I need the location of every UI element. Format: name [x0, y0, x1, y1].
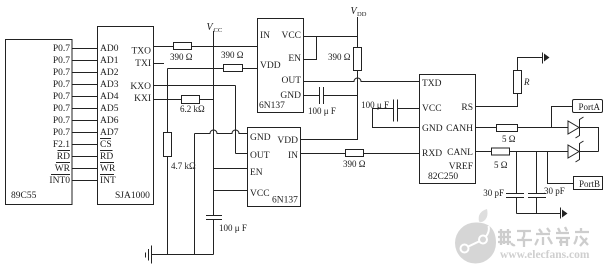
- wire CANH to R8: [476, 127, 497, 129]
- svg-text:AD6: AD6: [100, 116, 119, 126]
- svg-text:VDD: VDD: [260, 61, 281, 71]
- svg-text:30 pF: 30 pF: [483, 188, 504, 198]
- svg-text:P0.7: P0.7: [53, 44, 70, 54]
- wire TXO to R1: [154, 46, 174, 48]
- ground line right: [517, 213, 561, 215]
- svg-text:30 pF: 30 pF: [544, 186, 565, 196]
- watermark logo: [455, 209, 496, 263]
- svg-text:WR: WR: [55, 164, 71, 174]
- svg-text:5 Ω: 5 Ω: [502, 134, 516, 144]
- svg-text:VCC: VCC: [422, 104, 442, 114]
- node Vcc to R2 horizontal: [168, 68, 224, 70]
- svg-text:100 μ F: 100 μ F: [308, 106, 336, 116]
- wire R2 to VDD of upper 6N137: [243, 68, 258, 70]
- svg-text:RXD: RXD: [422, 149, 442, 159]
- svg-text:AD4: AD4: [100, 92, 119, 102]
- wire R8 to zener D1: [518, 127, 569, 129]
- SJA1000 right pin labels TXO TXI KXO KXI: [130, 47, 151, 105]
- svg-text:SJA1000: SJA1000: [115, 191, 150, 201]
- wire R3 to Vcc rail: [200, 99, 214, 101]
- svg-text:PortB: PortB: [579, 179, 600, 189]
- connector PortB: [574, 177, 603, 190]
- IC U1 6N137 upper: [258, 19, 304, 113]
- wire KXI to R3: [154, 99, 182, 101]
- svg-text:INT0: INT0: [49, 176, 70, 186]
- svg-text:DD: DD: [357, 11, 367, 18]
- VDD vertical wire: [357, 17, 359, 48]
- svg-text:AD1: AD1: [100, 56, 119, 66]
- VDD label top: [351, 6, 367, 18]
- svg-text:WR: WR: [100, 164, 116, 174]
- svg-text:IN: IN: [260, 31, 270, 41]
- svg-text:VCC: VCC: [281, 31, 301, 41]
- wire VCC of U4 to Vcc rail: [214, 190, 248, 192]
- svg-text:6N137: 6N137: [272, 196, 298, 206]
- capacitor C5 30pF: [528, 152, 565, 214]
- wire R6 down to VDD pin of lower 6N137: [301, 71, 358, 140]
- wire C1 to ground line: [213, 220, 215, 255]
- SJA1000 left pin labels AD0-AD7 CS RD WR INT: [100, 44, 119, 186]
- wire EN of U4 to Vcc rail: [214, 168, 248, 170]
- svg-text:P0.7: P0.7: [53, 104, 70, 114]
- svg-text:R: R: [523, 77, 530, 87]
- svg-text:www.elecfans.com: www.elecfans.com: [500, 249, 590, 261]
- svg-text:VREF: VREF: [449, 162, 473, 172]
- lower 6N137 pin labels: [250, 133, 298, 199]
- wire R5 to RXD of 82C250: [364, 153, 420, 155]
- zener diode D2: [568, 141, 584, 162]
- resistor R2 390ohm: [221, 50, 244, 72]
- wire R9 to zener D2: [510, 151, 569, 153]
- svg-text:EN: EN: [250, 168, 263, 178]
- resistor R8 5ohm: [497, 125, 518, 145]
- wire R4 down to ground line: [167, 157, 169, 255]
- svg-text:OUT: OUT: [281, 76, 301, 86]
- svg-text:PortA: PortA: [579, 102, 601, 112]
- resistor R4 4.7kohm: [164, 133, 197, 172]
- svg-text:P0.7: P0.7: [53, 92, 70, 102]
- upper 6N137 pin labels: [260, 31, 301, 101]
- svg-text:AD3: AD3: [100, 80, 119, 90]
- wire GND of U1 to C2: [304, 95, 320, 97]
- wire OUT of U4 to KXO vertical: [236, 153, 248, 155]
- svg-text:100 μ F: 100 μ F: [361, 100, 389, 110]
- svg-text:P0.7: P0.7: [53, 56, 70, 66]
- svg-text:P0.7: P0.7: [53, 80, 70, 90]
- wire R7 top to supply arrow: [518, 58, 543, 71]
- svg-text:P0.7: P0.7: [53, 116, 70, 126]
- svg-text:100 μ F: 100 μ F: [219, 223, 247, 233]
- IC U4 6N137 lower: [248, 128, 301, 207]
- wire RS to R7: [476, 94, 518, 107]
- wire GND of U4 with hops to left vertical: [195, 130, 248, 133]
- capacitor C3 100uF with bracket VCC-GND: [361, 100, 419, 128]
- svg-text:390 Ω: 390 Ω: [328, 52, 351, 62]
- ground line bottom: [152, 254, 214, 256]
- wire KXO vertical down to OUT: [235, 86, 237, 154]
- svg-text:OUT: OUT: [250, 151, 270, 161]
- wire CANL to R9: [476, 151, 492, 153]
- svg-text:6N137: 6N137: [259, 101, 285, 111]
- svg-text:89C55: 89C55: [11, 191, 37, 201]
- svg-text:VCC: VCC: [250, 189, 270, 199]
- svg-text:AD2: AD2: [100, 68, 119, 78]
- wire IN of U4 to R5: [301, 153, 346, 155]
- IC U2 SJA1000: [98, 27, 154, 205]
- resistor R9 5ohm: [492, 148, 510, 170]
- 82C250 pin labels: [422, 79, 473, 172]
- wire EN bracket to VCC wire: [304, 37, 317, 60]
- svg-text:390 Ω: 390 Ω: [221, 50, 244, 60]
- svg-text:390 Ω: 390 Ω: [343, 159, 366, 169]
- Vcc rail vertical: [213, 31, 215, 216]
- wire C2 to VDD vertical: [324, 95, 358, 97]
- wire GND drop to ground line: [194, 134, 196, 255]
- resistor R3 6.2kohm: [180, 96, 205, 115]
- ground arrow symbol right: [561, 208, 568, 219]
- svg-text:GND: GND: [250, 133, 271, 143]
- svg-text:EN: EN: [288, 54, 301, 64]
- zener diode D1: [568, 117, 584, 138]
- svg-text:CANL: CANL: [447, 148, 473, 158]
- svg-text:TXO: TXO: [131, 47, 151, 57]
- svg-text:RD: RD: [100, 152, 113, 162]
- svg-text:GND: GND: [422, 124, 443, 134]
- svg-text:IN: IN: [288, 151, 298, 161]
- wire VCC of U1 to VDD rail: [304, 36, 358, 38]
- svg-text:F2.1: F2.1: [53, 140, 70, 150]
- capacitor C2 100uF: [308, 87, 336, 116]
- svg-text:CANH: CANH: [446, 124, 473, 134]
- resistor R1 390ohm: [170, 43, 193, 63]
- svg-text:AD7: AD7: [100, 128, 119, 138]
- svg-text:82C250: 82C250: [428, 172, 458, 182]
- svg-text:TXI: TXI: [135, 59, 151, 69]
- wire PortA tap: [552, 107, 573, 128]
- svg-text:KXO: KXO: [130, 82, 151, 92]
- svg-text:4.7 kΩ: 4.7 kΩ: [171, 161, 196, 171]
- watermark text dianzifashaoyou: [498, 227, 589, 247]
- capacitor C4 30pF: [483, 152, 524, 214]
- svg-text:AD0: AD0: [100, 44, 119, 54]
- resistor R7 R vertical: [514, 71, 531, 94]
- svg-text:P0.7: P0.7: [53, 128, 70, 138]
- wire KXO to vertical: [154, 85, 236, 87]
- resistor R5 390ohm: [343, 150, 366, 170]
- wire PortB tap: [548, 152, 574, 184]
- svg-text:KXI: KXI: [134, 94, 151, 104]
- svg-text:RD: RD: [57, 152, 70, 162]
- wire OUT of U1 to TXD of 82C250 with hop: [304, 78, 420, 82]
- svg-text:GND: GND: [280, 91, 301, 101]
- bus wires P0.x to AD0-AD7 and control lines: [72, 49, 98, 181]
- svg-text:6.2 kΩ: 6.2 kΩ: [180, 104, 205, 114]
- wire R1 to IN of upper 6N137: [192, 46, 258, 48]
- TXI stub: [154, 63, 165, 65]
- svg-text:VDD: VDD: [277, 136, 298, 146]
- svg-text:TXD: TXD: [422, 79, 442, 89]
- 89C55 pin labels P0.7 x8 F2.1 RD WR INT0: [49, 44, 70, 186]
- svg-text:5 Ω: 5 Ω: [494, 160, 508, 170]
- IC U3 89C55: [6, 40, 73, 205]
- Vcc label: [207, 22, 223, 34]
- svg-text:CC: CC: [214, 27, 223, 34]
- capacitor C1 100uF on Vcc rail: [206, 216, 247, 234]
- svg-text:AD5: AD5: [100, 104, 119, 114]
- wire branch vertical x167: [167, 69, 169, 133]
- IC U5 82C250: [420, 75, 476, 184]
- ground symbol left: [146, 246, 152, 264]
- resistor R6 390ohm vertical: [328, 48, 362, 71]
- svg-text:P0.7: P0.7: [53, 68, 70, 78]
- svg-text:INT: INT: [100, 176, 116, 186]
- connector PortA: [573, 100, 603, 113]
- svg-text:390 Ω: 390 Ω: [170, 52, 193, 62]
- svg-text:CS: CS: [100, 140, 112, 150]
- wire D2 cathode to right vertical: [580, 151, 599, 153]
- supply arrow symbol top right: [543, 53, 550, 64]
- svg-text:RS: RS: [461, 103, 473, 113]
- wire D1 cathode right and down: [580, 128, 599, 152]
